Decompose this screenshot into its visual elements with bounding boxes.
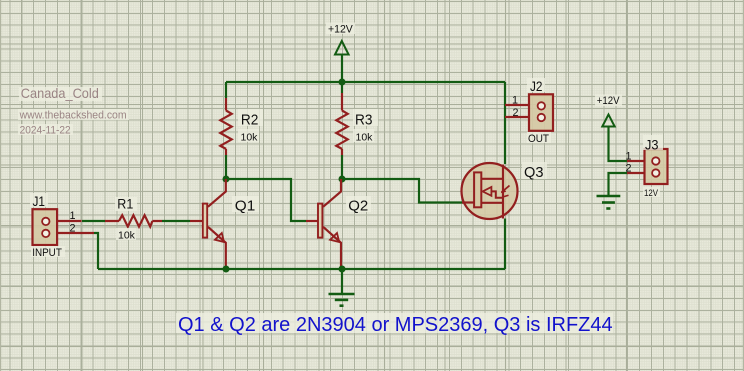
mosfet Q3: [462, 163, 518, 219]
label Q3: [522, 162, 547, 181]
svg-text:2: 2: [625, 163, 631, 175]
label Q2: [346, 196, 371, 214]
wire Q3 source to bottom rail: [504, 219, 506, 270]
svg-text:12V: 12V: [644, 188, 659, 199]
label R1: [115, 197, 137, 212]
wire ground drop: [341, 269, 343, 294]
wire J3 pin2 to ground: [609, 173, 629, 196]
border right edge line: [743, 0, 744, 371]
svg-text:+12V: +12V: [328, 23, 353, 35]
label J3: [643, 135, 663, 153]
pin number 1 of J1: [69, 210, 75, 222]
connector J3: [627, 149, 668, 184]
svg-text:2: 2: [512, 107, 518, 119]
wire Q1 collector to Q2 base: [226, 179, 306, 221]
pin number 1 of J2: [512, 95, 518, 107]
wire +12V to J3 pin1: [609, 127, 629, 162]
svg-text:2: 2: [69, 222, 75, 234]
wire R2 top: [225, 82, 227, 98]
svg-text:Canada_Cold: Canada_Cold: [21, 85, 99, 101]
power +12V secondary: [595, 95, 622, 127]
title date 2024-11-22: [18, 124, 73, 137]
border left edge line: [0, 0, 1, 371]
svg-text:R3: R3: [355, 111, 373, 128]
wire R3 bottom: [341, 155, 343, 179]
pin number 2 of J3: [625, 163, 631, 175]
svg-text:J3: J3: [645, 138, 659, 153]
resistor R1: [105, 215, 162, 226]
junction +12V rail R3: [339, 79, 346, 86]
svg-text:Q1 & Q2 are 2N3904 or MPS2369,: Q1 & Q2 are 2N3904 or MPS2369, Q3 is IRF…: [178, 314, 613, 336]
svg-text:+12V: +12V: [597, 95, 620, 107]
label J2: [527, 78, 545, 94]
svg-text:INPUT: INPUT: [32, 247, 62, 259]
port name 12V: [643, 187, 660, 199]
pin number 1 of J3: [625, 151, 631, 163]
svg-text:OUT: OUT: [528, 133, 549, 145]
resistor R3: [336, 93, 347, 155]
connector J2: [505, 94, 553, 131]
value R3 10k: [353, 129, 374, 144]
svg-text:R1: R1: [117, 197, 133, 212]
svg-text:1: 1: [512, 95, 518, 107]
connector J1: [33, 209, 95, 245]
value R1 10k: [116, 228, 136, 242]
port name INPUT: [31, 246, 65, 259]
svg-text:J1: J1: [33, 194, 46, 209]
wire J1 pin2 down to bottom rail: [94, 233, 98, 269]
pin number 2 of J2: [512, 107, 518, 119]
junction node Q1 collector: [223, 176, 230, 183]
label Q1: [232, 196, 259, 214]
wire R3 top: [341, 82, 343, 93]
wire top rail +12V to J2: [226, 81, 505, 83]
svg-text:Q3: Q3: [524, 164, 544, 181]
svg-text:Q2: Q2: [348, 197, 368, 214]
title url www.thebackshed.com: [18, 109, 129, 122]
label J1: [30, 193, 48, 209]
svg-text:J2: J2: [530, 79, 543, 94]
wire R2 bottom: [225, 155, 227, 179]
wire Q2 collector to Q3 gate: [342, 179, 463, 203]
svg-text:Q1: Q1: [235, 197, 256, 214]
transistor Q1: [190, 179, 226, 269]
resistor R2: [220, 98, 231, 155]
note blue text: [176, 313, 613, 336]
svg-text:10k: 10k: [356, 132, 374, 144]
wire R1 to Q1 base: [162, 220, 190, 222]
label R3: [353, 109, 378, 128]
svg-text:1: 1: [625, 151, 631, 163]
svg-text:2024-11-22: 2024-11-22: [20, 125, 71, 137]
svg-text:10k: 10k: [241, 132, 259, 144]
pin number 2 of J1: [69, 222, 75, 234]
transistor Q2: [306, 179, 341, 269]
svg-text:1: 1: [69, 210, 75, 222]
junction Q2 emitter on rail: [339, 266, 346, 273]
wire J2 drop to Q3 drain: [504, 82, 506, 164]
title Canada_Cold: [19, 85, 102, 101]
wire J1 pin1 to R1: [82, 220, 105, 222]
ground under Q2: [329, 294, 355, 306]
port name OUT: [527, 132, 551, 145]
power +12V main: [326, 23, 355, 83]
junction node Q2 collector: [339, 176, 346, 183]
label R2: [238, 109, 263, 128]
svg-text:www.thebackshed.com: www.thebackshed.com: [19, 110, 127, 122]
wire bottom rail: [98, 268, 505, 270]
svg-text:R2: R2: [241, 111, 259, 128]
svg-text:10k: 10k: [118, 230, 136, 242]
ground for J3: [597, 196, 621, 209]
value R2 10k: [238, 129, 259, 144]
junction Q1 emitter on rail: [223, 266, 230, 273]
